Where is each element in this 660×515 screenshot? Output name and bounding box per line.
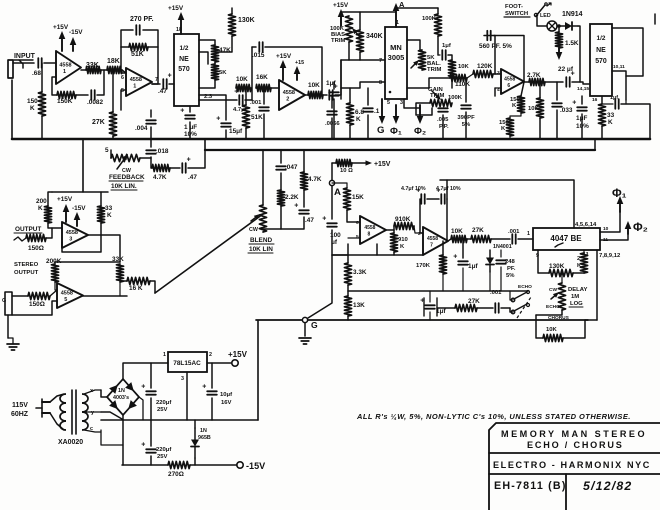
- wire: [438, 54, 440, 56]
- svg-text:1N4001: 1N4001: [493, 244, 512, 250]
- svg-text:270Ω: 270Ω: [168, 471, 184, 478]
- svg-text:5%: 5%: [506, 273, 515, 279]
- node A circle: [329, 180, 334, 185]
- wire U2 pin2: [199, 52, 208, 64]
- resistor 200K stereo: [51, 264, 58, 282]
- wire to bus: [245, 128, 247, 139]
- svg-text:4047 BE: 4047 BE: [550, 234, 582, 243]
- wire reg ground: [186, 372, 188, 420]
- resistor 130K: [549, 269, 573, 276]
- wire: [367, 88, 369, 105]
- svg-text:LED: LED: [540, 13, 551, 19]
- capacitor 560PF: [487, 31, 490, 40]
- resistor 910K: [394, 222, 414, 229]
- wire input to C1: [13, 62, 34, 64]
- wire: [601, 96, 603, 104]
- svg-text:25V: 25V: [157, 407, 168, 413]
- svg-text:51K: 51K: [131, 51, 144, 58]
- svg-text:51K: 51K: [251, 114, 263, 121]
- wire: [101, 69, 107, 71]
- bridge rectifier 1N4003: [107, 379, 139, 415]
- wire between caps: [427, 198, 439, 200]
- svg-text:+15V: +15V: [57, 196, 73, 203]
- resistor 33K stereo: [116, 264, 123, 282]
- underline: [249, 243, 274, 245]
- svg-text:4.7K: 4.7K: [308, 176, 322, 183]
- svg-text:ELECTRO - HARMONIX NYC: ELECTRO - HARMONIX NYC: [493, 460, 651, 470]
- svg-text:10: 10: [603, 226, 609, 232]
- wire: [151, 157, 152, 168]
- svg-text:.47: .47: [158, 88, 167, 95]
- svg-text:5: 5: [64, 297, 67, 303]
- capacitor .47 fb: [182, 156, 190, 173]
- wire: [332, 254, 348, 256]
- dashed switch link: [517, 297, 531, 318]
- wire: [462, 239, 464, 258]
- capacitor 1uF out: [572, 99, 587, 110]
- wire cap loop right: [446, 199, 448, 241]
- svg-text:+: +: [572, 99, 576, 106]
- resistor 2K: [580, 253, 587, 273]
- svg-text:16: 16: [592, 97, 598, 103]
- svg-text:OUTPUT: OUTPUT: [14, 270, 39, 276]
- wire A6 out: [83, 295, 127, 297]
- capacitor 1uf echo: [420, 297, 435, 308]
- tick mark right edge: [654, 14, 656, 24]
- svg-text:170K: 170K: [416, 263, 431, 269]
- wire: [110, 150, 112, 158]
- power +15V arrow MN: [338, 9, 345, 26]
- wire: [245, 99, 252, 101]
- svg-text:2: 2: [286, 97, 289, 103]
- svg-text:6: 6: [507, 83, 510, 89]
- wire bus jog: [204, 139, 206, 150]
- wire to bus: [41, 116, 43, 139]
- svg-text:60HZ: 60HZ: [11, 411, 29, 418]
- capacitor 4.7uF: [234, 88, 242, 105]
- svg-text:.018: .018: [156, 148, 169, 155]
- svg-text:10 Ω: 10 Ω: [340, 168, 353, 174]
- wire: [263, 88, 265, 104]
- wire to bus: [442, 115, 444, 139]
- wire: [585, 319, 597, 321]
- svg-text:4558: 4558: [61, 291, 73, 297]
- wire 130K stub: [231, 8, 233, 14]
- capacitor .001 osc: [512, 234, 515, 244]
- wire right return: [621, 104, 650, 139]
- wire: [414, 226, 423, 233]
- wire: [347, 285, 349, 296]
- wire 560PF loop left: [484, 36, 495, 75]
- svg-text:Φ₂: Φ₂: [633, 221, 648, 234]
- svg-text:.001: .001: [490, 290, 502, 296]
- wire output squiggle: [14, 237, 26, 241]
- op-amp U1A 4558: [56, 51, 81, 84]
- svg-text:2.2K: 2.2K: [285, 194, 299, 201]
- wire: [500, 267, 502, 291]
- wire: [211, 398, 213, 420]
- wire reg out: [207, 362, 231, 364]
- wire 270PF loop left: [121, 30, 133, 47]
- wire: [448, 55, 452, 60]
- wire: [8, 338, 13, 344]
- svg-text:ECHO: ECHO: [518, 284, 532, 290]
- capacitor 220uF b: [141, 441, 156, 452]
- power +15V arrow: [59, 31, 66, 51]
- svg-text:5: 5: [105, 147, 109, 154]
- svg-text:NE: NE: [179, 56, 189, 63]
- wire: [348, 237, 360, 239]
- svg-text:110K: 110K: [455, 81, 470, 88]
- svg-text:150: 150: [27, 98, 38, 105]
- svg-text:.47: .47: [188, 174, 197, 181]
- svg-text:+: +: [322, 215, 326, 222]
- wire: [48, 192, 52, 206]
- svg-text:130K: 130K: [238, 17, 255, 24]
- transformer T1 primary: [60, 394, 66, 403]
- capacitor 100uF: [322, 215, 337, 226]
- op-amp U9 4558: [360, 216, 386, 244]
- svg-text:10K LIN.: 10K LIN.: [111, 183, 137, 190]
- svg-text:3: 3: [181, 376, 184, 382]
- capacitor .001: [259, 107, 269, 110]
- wire: [536, 315, 543, 338]
- wire: [442, 274, 444, 291]
- svg-text:33K: 33K: [112, 256, 124, 263]
- capacitor 22uF: [566, 70, 574, 87]
- svg-text:K: K: [107, 212, 112, 219]
- svg-text:4,5,6,14: 4,5,6,14: [575, 222, 597, 228]
- wire node down: [41, 63, 43, 92]
- svg-text:47K: 47K: [219, 47, 231, 54]
- gain trim wiper: [432, 91, 441, 100]
- svg-text:.0082: .0082: [87, 99, 103, 106]
- svg-text:+15V: +15V: [333, 2, 349, 9]
- wire: [263, 206, 281, 229]
- resistor 170K: [439, 255, 446, 274]
- wire: [429, 312, 431, 320]
- potentiometer delay 1M: [558, 283, 565, 310]
- power +15V arrow A5: [63, 204, 70, 222]
- arrow to ground: [556, 48, 563, 60]
- wire gain trim box: [416, 103, 432, 115]
- wire sec c to bottom: [101, 430, 123, 445]
- svg-text:4003's: 4003's: [113, 395, 129, 401]
- svg-text:FOOT-: FOOT-: [505, 4, 523, 10]
- power -15V arrow A5: [74, 212, 81, 226]
- wire 51K right: [148, 46, 158, 48]
- wire: [331, 95, 333, 108]
- wire left edge: [11, 80, 13, 139]
- wire 100K down: [437, 36, 439, 55]
- resistor 47K: [211, 45, 218, 62]
- arrow phase2: [417, 105, 424, 124]
- bus wire main: [12, 138, 650, 141]
- svg-text:33: 33: [105, 205, 113, 212]
- resistor 27K osc: [471, 235, 491, 242]
- svg-text:.004: .004: [135, 125, 148, 132]
- resistor 16K: [256, 84, 271, 91]
- wire: [561, 273, 563, 283]
- wire A down to ground: [308, 230, 332, 318]
- wire U2 pin to 47K: [199, 40, 215, 45]
- capacitor 248PF: [496, 260, 506, 263]
- wire: [281, 217, 304, 229]
- wire: [214, 62, 216, 64]
- feedback wiper: [117, 154, 128, 169]
- svg-text:STEREO: STEREO: [14, 262, 39, 268]
- resistor 150K feedback: [57, 91, 76, 98]
- svg-text:2: 2: [209, 352, 212, 358]
- wire: [429, 78, 450, 88]
- svg-text:27K: 27K: [92, 119, 105, 126]
- svg-text:4558: 4558: [283, 90, 295, 96]
- svg-text:CW: CW: [549, 287, 557, 293]
- svg-text:120K: 120K: [477, 63, 493, 70]
- transformer T1 core: [71, 390, 73, 434]
- footswitch SW1: [536, 5, 545, 16]
- wire: [150, 398, 152, 420]
- title divider vertical: [565, 474, 567, 510]
- svg-text:7: 7: [379, 58, 382, 64]
- svg-text:+: +: [187, 156, 191, 163]
- title divider 1: [489, 452, 660, 454]
- svg-text:-15V: -15V: [69, 29, 83, 36]
- wire: [429, 291, 431, 302]
- wire: [46, 228, 52, 238]
- wire: [510, 113, 521, 118]
- svg-text:570: 570: [595, 58, 607, 65]
- check mark 4047: [555, 243, 563, 247]
- wire 910K to rail: [393, 252, 395, 255]
- capacitor 270PF: [136, 25, 139, 35]
- wire: [55, 282, 57, 290]
- resistor 16K: [127, 277, 150, 284]
- wire A3 loop left: [251, 47, 253, 100]
- capacitor 1uf: [329, 83, 337, 100]
- resistor 3.3K: [344, 263, 351, 285]
- capacitor .47 blend: [294, 202, 309, 213]
- wire: [437, 307, 455, 309]
- wire 51K left: [121, 46, 129, 48]
- svg-text:G: G: [311, 320, 318, 330]
- resistor 33K out: [97, 206, 104, 223]
- svg-text:5: 5: [356, 234, 359, 240]
- resistor 33K: [86, 66, 101, 73]
- wire to bus: [581, 114, 583, 139]
- op-amp U10 4558: [423, 227, 448, 255]
- junction dot: [557, 24, 561, 28]
- wire 340K top: [359, 12, 361, 30]
- wire: [340, 12, 342, 26]
- svg-text:4.7μf 10%: 4.7μf 10%: [401, 186, 426, 192]
- wire: [349, 88, 351, 103]
- svg-text:1μf: 1μf: [442, 43, 451, 49]
- wire sec top: [84, 390, 101, 394]
- wire osc feedback to 4047: [440, 180, 574, 228]
- resistor 10K out: [308, 91, 323, 98]
- wire: [558, 26, 560, 32]
- capacitor .47 coupling: [163, 72, 171, 89]
- capacitor 1uf bal: [442, 50, 445, 60]
- arrow phi1: [617, 196, 624, 212]
- wire: [573, 272, 584, 274]
- capacitor .68: [38, 58, 41, 68]
- resistor 4.7K blend: [300, 172, 307, 190]
- capacitor .0082: [91, 90, 94, 100]
- wire: [332, 162, 336, 164]
- svg-text:1: 1: [163, 352, 166, 358]
- IC U6 NE570 compander: [590, 24, 612, 96]
- svg-text:6: 6: [121, 75, 124, 81]
- wire 130K down: [215, 36, 232, 52]
- svg-text:ALL R's ¼W, 5%, NON-LYTIC C's: ALL R's ¼W, 5%, NON-LYTIC C's 10%, UNLES…: [356, 412, 631, 421]
- resistor 110K: [450, 74, 467, 81]
- wire A6 lower loop: [12, 301, 57, 315]
- svg-text:5K: 5K: [219, 70, 227, 76]
- svg-text:G: G: [377, 125, 385, 136]
- wire: [467, 238, 471, 240]
- svg-text:3: 3: [69, 237, 72, 243]
- svg-text:10K: 10K: [528, 106, 540, 112]
- wire: [211, 363, 213, 388]
- svg-text:+15V: +15V: [374, 161, 391, 168]
- wire: [54, 262, 56, 264]
- svg-text:78L15AC: 78L15AC: [173, 360, 201, 367]
- IC U2 NE570 compander: [174, 34, 199, 106]
- wire bottom rail: [122, 464, 168, 466]
- resistor 120K: [473, 70, 493, 77]
- wire: [442, 103, 444, 105]
- svg-text:SWITCH: SWITCH: [505, 11, 528, 17]
- svg-text:4558: 4558: [59, 63, 71, 69]
- svg-text:3: 3: [497, 70, 500, 76]
- resistor 2.7K: [529, 78, 545, 85]
- power -15V arrow: [70, 37, 77, 51]
- wire: [332, 183, 347, 188]
- svg-text:5/12/82: 5/12/82: [583, 479, 632, 493]
- wire: [489, 272, 491, 291]
- resistor 150ohm out: [26, 234, 46, 241]
- svg-text:1μf: 1μf: [326, 80, 336, 87]
- svg-text:150Ω: 150Ω: [29, 301, 45, 308]
- svg-text:910K: 910K: [395, 216, 411, 223]
- wire mid horizontal: [348, 290, 528, 292]
- wire: [581, 96, 583, 104]
- svg-text:10,11: 10,11: [613, 64, 625, 70]
- wire U6 loop right: [612, 28, 643, 76]
- capacitor .1: [363, 108, 373, 111]
- svg-text:G: G: [2, 298, 6, 304]
- svg-text:Φ₁: Φ₁: [612, 187, 627, 200]
- potentiometer 100K gain trim: [430, 99, 452, 106]
- svg-text:+: +: [436, 187, 440, 194]
- wire to bus: [263, 114, 265, 139]
- arrow phi2: [625, 221, 632, 234]
- svg-text:-15V: -15V: [72, 205, 86, 212]
- resistor 10K pulldown: [536, 98, 543, 118]
- wire cap loop left: [420, 199, 423, 233]
- wire to bus: [331, 118, 333, 139]
- wire to bus: [465, 112, 467, 139]
- svg-text:100K: 100K: [422, 16, 437, 22]
- svg-text:4558: 4558: [66, 230, 78, 236]
- svg-text:10K: 10K: [546, 327, 558, 333]
- svg-text:27K: 27K: [468, 298, 480, 305]
- wire A1 feedback left: [52, 77, 57, 95]
- svg-text:+: +: [141, 441, 145, 448]
- wire: [462, 268, 464, 291]
- wire psu to ground bus: [257, 321, 259, 420]
- potentiometer blend 10K: [259, 205, 266, 232]
- diode 1N4001: [486, 250, 494, 272]
- svg-text:A: A: [334, 187, 341, 198]
- capacitor 1uf right: [615, 99, 618, 109]
- potentiometer 5K bal trim: [418, 50, 425, 70]
- svg-text:4558: 4558: [130, 77, 142, 83]
- wire: [510, 291, 513, 300]
- resistor 51K A3: [242, 105, 249, 128]
- capacitor 10uF: [202, 383, 217, 394]
- capacitor 4.7uF b: [436, 187, 444, 204]
- wire: [348, 42, 350, 60]
- wire: [393, 226, 395, 233]
- wire diagonal to blend: [155, 214, 263, 293]
- svg-text:K: K: [30, 105, 35, 112]
- op-amp U8 4558: [57, 283, 83, 308]
- svg-text:+: +: [141, 383, 145, 390]
- underline: [111, 189, 137, 191]
- wire delay to switch: [536, 310, 562, 315]
- resistor 15K: [343, 188, 350, 210]
- svg-text:+: +: [180, 107, 184, 114]
- svg-text:150K: 150K: [57, 98, 73, 105]
- wire A2 out: [152, 83, 160, 85]
- svg-text:INPUT: INPUT: [14, 53, 36, 60]
- resistor 910K b: [390, 233, 397, 252]
- wire C1 to U1A: [44, 62, 56, 64]
- wire plug to transformer 2: [50, 413, 64, 430]
- wire: [304, 323, 306, 336]
- input jack J1: [8, 60, 13, 78]
- svg-text:130K: 130K: [549, 263, 565, 270]
- wire: [500, 250, 502, 257]
- svg-text:33K: 33K: [86, 62, 99, 69]
- wire: [494, 88, 496, 96]
- wire: [467, 74, 473, 78]
- svg-text:.033: .033: [560, 107, 573, 114]
- wire: [150, 420, 152, 446]
- diode 1N914: [559, 22, 578, 30]
- wire A7 bottom: [376, 244, 378, 255]
- dot pin mark: [389, 91, 392, 94]
- power +15V arrow A3: [280, 60, 287, 80]
- wire to U2: [169, 83, 174, 85]
- capacitor .015: [259, 42, 262, 52]
- wire 33K loop: [62, 223, 101, 252]
- wire diode down to U6 input: [578, 26, 580, 82]
- svg-text:FEEDBACK: FEEDBACK: [109, 174, 145, 181]
- wire: [194, 420, 196, 428]
- svg-text:+: +: [216, 115, 220, 122]
- svg-text:4558: 4558: [427, 236, 438, 242]
- resistor 100K: [434, 14, 441, 36]
- svg-text:16V: 16V: [221, 400, 232, 406]
- svg-text:1μf: 1μf: [610, 95, 618, 101]
- svg-text:+15V: +15V: [276, 53, 292, 60]
- svg-text:150Ω: 150Ω: [28, 245, 44, 252]
- resistor 200K out: [44, 206, 51, 223]
